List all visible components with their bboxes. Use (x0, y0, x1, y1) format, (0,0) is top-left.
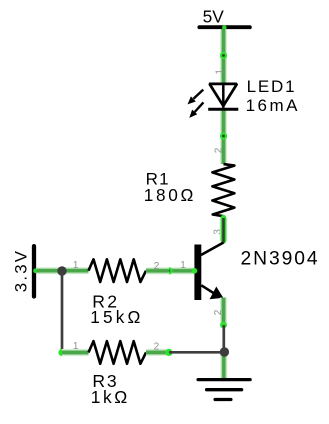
wire junction down to R3 (61, 271, 64, 353)
wire emitter to ground junction (222, 325, 225, 352)
svg-text:3.3V: 3.3V (11, 249, 30, 292)
transistor base leg wire (169, 268, 197, 274)
wire R2 to base node (146, 267, 169, 274)
svg-text:LED1: LED1 (247, 77, 297, 96)
svg-text:16mA: 16mA (246, 96, 300, 115)
wire junction to ground (220, 352, 227, 379)
resistor R1 (212, 164, 234, 216)
ground (198, 380, 250, 400)
LED1 value labels (246, 77, 300, 115)
svg-text:2: 2 (154, 342, 160, 353)
power symbol 3.3V (11, 246, 37, 296)
node junction dot on 5V wire (220, 52, 227, 59)
power symbol 5V (199, 7, 249, 30)
transistor emitter leg wire (220, 298, 227, 329)
svg-text:1: 1 (73, 260, 79, 271)
svg-text:1kΩ: 1kΩ (91, 387, 130, 407)
transistor Q1 2N3904 (194, 243, 223, 301)
wire to R3 (62, 349, 89, 356)
svg-text:2: 2 (213, 309, 224, 315)
svg-text:2: 2 (213, 147, 224, 153)
wire R3 to node (146, 349, 169, 356)
svg-text:2N3904: 2N3904 (241, 249, 320, 270)
wire R3 to ground junction (169, 351, 224, 354)
svg-text:1: 1 (73, 341, 79, 352)
svg-text:1: 1 (180, 260, 186, 271)
node junction dot on cathode wire (220, 132, 227, 139)
wire R1 to collector (220, 218, 228, 243)
svg-text:2: 2 (154, 261, 160, 272)
resistor R3 (89, 341, 147, 364)
LED light arrow 2 (189, 102, 203, 118)
node R3 pin 1 dot (58, 349, 65, 356)
node R3 pin 2 dot (165, 349, 172, 356)
R1 labels (144, 170, 196, 205)
wire 5V to LED anode (220, 29, 227, 84)
svg-text:5V: 5V (203, 7, 225, 27)
R2 labels (90, 291, 143, 327)
svg-text:180Ω: 180Ω (144, 185, 196, 205)
junction node dot at 3.3V branch (57, 266, 66, 275)
wire LED cathode to R1 (220, 108, 227, 164)
resistor R2 (89, 259, 147, 282)
wire 3.3V to R2 (37, 267, 89, 274)
LED LED1 symbol (208, 84, 238, 109)
junction node dot at ground (220, 347, 229, 356)
LED light arrow 1 (188, 90, 204, 105)
svg-text:15kΩ: 15kΩ (90, 307, 143, 327)
R3 labels (91, 371, 130, 407)
node base pin dot (165, 267, 172, 274)
svg-text:1: 1 (215, 69, 226, 75)
